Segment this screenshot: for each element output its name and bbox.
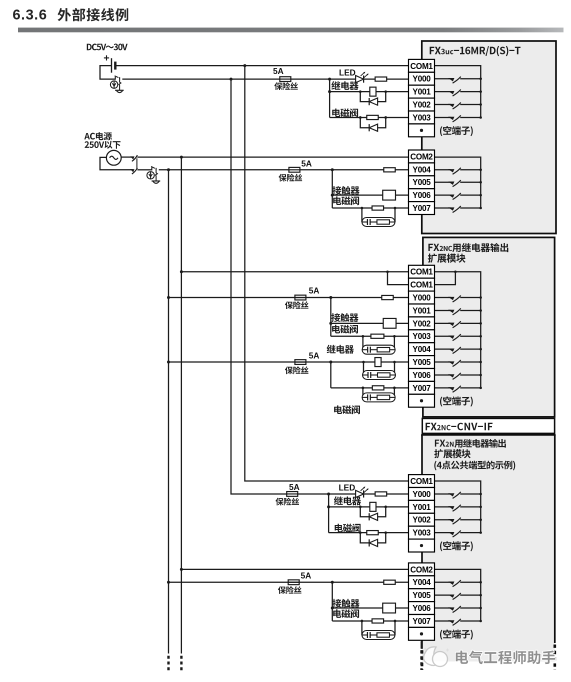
load bus (block3 group1)	[328, 494, 330, 533]
junction	[479, 506, 482, 509]
junction	[479, 387, 482, 390]
junction	[479, 361, 482, 364]
freewheel diode branch (block1 Y001)	[360, 92, 385, 102]
label AC电源	[84, 132, 112, 140]
label 保险丝 (block2 group2)	[285, 366, 309, 374]
relay contact (block1 COM2 group Y-row at 195.15)	[435, 193, 481, 200]
bus: AC bottom vertical (x=168.5)	[168, 170, 170, 654]
svg-text:COM2: COM2	[410, 152, 433, 161]
junction	[331, 194, 334, 197]
terminal COM1 (block3)	[409, 475, 435, 488]
svg-text:Y001: Y001	[413, 306, 432, 315]
surge snubber branch (block3 Y007)	[362, 621, 395, 635]
module label 扩展模块 (block 3)	[434, 449, 470, 458]
terminal Y007 (block1)	[409, 202, 435, 215]
RC surge absorber (block3 Y007)	[362, 631, 395, 640]
wire: AC top to COM1 (block2)	[181, 271, 408, 273]
label 电磁阀 (block2 group1)	[332, 325, 358, 334]
terminal Y005 (block3)	[409, 589, 435, 602]
terminal Y001 (block1)	[409, 85, 435, 98]
internal COM wire (block3 COM2 group)	[435, 569, 481, 621]
svg-text:Y005: Y005	[413, 591, 432, 600]
junction	[479, 78, 482, 81]
junction	[479, 207, 482, 210]
diode (block1 Y001)	[369, 98, 377, 105]
junction	[479, 103, 482, 106]
wire: contactor branch Y006 (block3)	[332, 607, 408, 609]
module label FX3uc-16MR/D(S)-T	[430, 46, 521, 56]
terminal Y000 (block2)	[409, 291, 435, 304]
svg-text:COM1: COM1	[410, 268, 433, 277]
RC surge absorber (block2 Y007)	[362, 393, 395, 402]
relay contact (block2 COM1 group Y-row at 362.05)	[435, 360, 481, 367]
internal COM wire (block1 COM2 group)	[435, 157, 481, 208]
svg-text:COM1: COM1	[410, 477, 433, 486]
expansion module box FX2N (block 3, grey fill, open bottom)	[422, 435, 555, 662]
wire: relay branch Y001 (block3)	[329, 506, 409, 508]
battery V1 long plate	[111, 58, 113, 72]
label 电磁阀 (block1 group1)	[332, 108, 358, 117]
wire: DC fused line to Y000 (block1)	[122, 78, 408, 80]
junction	[479, 116, 482, 119]
relay contact (block3 COM1 group Y-row at 506.85)	[435, 505, 481, 512]
junction	[479, 181, 482, 184]
junction	[479, 620, 482, 623]
junction	[329, 361, 332, 364]
relay contact (block2 COM1 group Y-row at 310.45)	[435, 308, 481, 315]
junction	[479, 607, 482, 610]
empty terminal • (block3)	[409, 627, 435, 640]
junction	[384, 531, 387, 534]
relay contact (block3 COM1 group Y-row at 532.65)	[435, 531, 481, 538]
terminal Y007 (block3)	[409, 615, 435, 628]
AC top bus dashed continuation	[180, 656, 182, 672]
surge snubber branch (block2 Y003)	[363, 336, 395, 349]
label 接触器 (block3)	[332, 599, 359, 608]
wire: AC top to breaker	[121, 156, 133, 158]
diode (block1 Y003)	[369, 124, 377, 131]
RC surge absorber (block1 Y007)	[362, 218, 395, 227]
svg-text:Y000: Y000	[413, 490, 432, 499]
resistor load (block2 Y000)	[382, 295, 394, 299]
COM1 jumper stub (block2)	[388, 272, 409, 285]
junction	[167, 168, 170, 171]
contactor coil (block2 Y002)	[383, 318, 396, 328]
junction	[328, 90, 331, 93]
relay contact (block1 COM1 group Y-row at 117.45)	[435, 115, 481, 122]
svg-text:5A: 5A	[309, 351, 320, 361]
relay contact (block3 COM1 group Y-row at 493.95)	[435, 492, 481, 499]
block 3 right border	[554, 435, 556, 643]
junction	[479, 322, 482, 325]
relay contact (block2 COM1 group Y-row at 297.55)	[435, 295, 481, 302]
AC source G1 circle	[106, 150, 121, 165]
freewheel diode branch (block1 Y003)	[360, 117, 385, 127]
svg-text:Y000: Y000	[413, 293, 432, 302]
junction	[479, 531, 482, 534]
svg-text:5A: 5A	[273, 66, 284, 76]
load bus (block1 group2)	[331, 170, 333, 208]
svg-text:Y002: Y002	[413, 319, 432, 328]
contactor coil (block1 Y006)	[383, 190, 396, 200]
junction	[393, 335, 396, 338]
junction	[362, 335, 365, 338]
fuse 5A (block1 group1)	[280, 77, 291, 82]
module label 扩展模块 (block 2)	[428, 254, 466, 263]
svg-text:Y001: Y001	[413, 88, 432, 97]
diode (block3 Y001)	[369, 513, 377, 520]
surge snubber branch (block2 Y007)	[363, 388, 395, 398]
svg-text:Y006: Y006	[413, 604, 432, 613]
svg-text:Y007: Y007	[413, 617, 432, 626]
internal COM wire (block2 COM1 group)	[435, 272, 481, 388]
svg-text:Y003: Y003	[413, 113, 432, 122]
relay contact (block3 COM2 group Y-row at 608.05)	[435, 606, 481, 613]
svg-text:5A: 5A	[301, 158, 312, 168]
expansion module box FX2NC (block 2)	[423, 237, 555, 417]
junction	[180, 568, 183, 571]
junction	[393, 387, 396, 390]
terminal COM1 (block2)	[409, 265, 435, 278]
wire: AC top to COM2 (block1)	[137, 156, 408, 158]
wire: relay branch Y001 (block1)	[330, 91, 409, 93]
junction	[359, 90, 362, 93]
terminal COM2 (block1)	[409, 150, 435, 163]
wire: AC top to COM2 (block3)	[181, 568, 408, 570]
block 3 left border dashed continuation	[421, 650, 424, 670]
terminal Y004 (block2)	[409, 343, 435, 356]
junction	[331, 168, 334, 171]
terminal COM1 (block2)	[409, 278, 435, 291]
label 保险丝 (block1 group2)	[279, 174, 303, 182]
internal COM wire (block3 COM1 group)	[435, 481, 481, 533]
svg-text:Y001: Y001	[413, 503, 432, 512]
block 3 top border	[421, 434, 555, 436]
relay contact (block1 COM2 group Y-row at 169.8)	[435, 168, 481, 175]
relay contact (block2 COM1 group Y-row at 323.35)	[435, 321, 481, 328]
terminal Y002 (block2)	[409, 317, 435, 330]
svg-text:Y003: Y003	[413, 332, 432, 341]
junction	[361, 620, 364, 623]
terminal Y003 (block1)	[409, 111, 435, 124]
relay contact (block1 COM2 group Y-row at 208.05)	[435, 206, 481, 213]
svg-text:COM1: COM1	[410, 62, 433, 71]
empty terminal • (block1)	[409, 124, 435, 137]
RC surge absorber (block2 Y005)	[363, 371, 396, 380]
junction	[359, 506, 362, 509]
terminal Y000 (block3)	[409, 488, 435, 501]
label 继电器 (block1)	[331, 81, 358, 90]
solenoid load (block2 Y007)	[372, 386, 384, 390]
wire: battery left drop	[100, 66, 115, 80]
junction	[479, 169, 482, 172]
breaker pole (AC bottom wire)	[130, 168, 137, 174]
load bus (block3 group2)	[331, 582, 333, 621]
block 3 right border dashed continuation	[553, 645, 556, 671]
label 电磁阀 (block2 bottom)	[334, 405, 360, 414]
junction	[180, 270, 183, 273]
junction	[230, 78, 233, 81]
resistor load (block1 Y004)	[384, 168, 396, 172]
terminal Y000 (block1)	[409, 72, 435, 85]
solenoid load (block1 Y003)	[367, 115, 379, 119]
watermark text 电气工程师助手	[456, 651, 556, 665]
empty terminal • (block2)	[409, 394, 435, 407]
relay contact (block3 COM2 group Y-row at 582.25)	[435, 580, 481, 587]
junction	[243, 64, 246, 67]
relay contact (block1 COM2 group Y-row at 182.25)	[435, 180, 481, 187]
junction	[479, 335, 482, 338]
relay contact (block1 COM1 group Y-row at 91.65)	[435, 90, 481, 97]
junction	[167, 361, 170, 364]
junction	[331, 607, 334, 610]
freewheel diode branch (block3 Y001)	[360, 507, 385, 517]
terminal Y002 (block3)	[409, 513, 435, 526]
label (空端子) block1	[440, 126, 473, 136]
fuse 5A (block2 group2)	[295, 360, 306, 365]
svg-text:Y004: Y004	[413, 345, 432, 354]
terminal Y004 (block3)	[409, 576, 435, 589]
svg-text:COM1: COM1	[410, 281, 433, 290]
relay contact (block2 COM1 group Y-row at 387.85)	[435, 386, 481, 393]
junction	[479, 194, 482, 197]
junction	[328, 78, 331, 81]
junction	[479, 296, 482, 299]
svg-text:LED: LED	[339, 68, 356, 78]
junction	[454, 270, 457, 273]
resistor load (block1 Y000)	[375, 77, 387, 81]
svg-text:Y006: Y006	[413, 371, 432, 380]
svg-text:5A: 5A	[309, 286, 320, 296]
junction	[479, 493, 482, 496]
relay contact (block3 COM2 group Y-row at 620.95)	[435, 619, 481, 626]
resistor load (block3 Y004)	[384, 580, 396, 584]
wire: AC bottom to surge	[137, 169, 151, 171]
svg-text:COM2: COM2	[410, 565, 433, 574]
solenoid load (block1 Y007)	[372, 206, 384, 210]
junction	[384, 116, 387, 119]
wire: solenoid branch Y003 (block1)	[330, 116, 409, 118]
junction	[384, 506, 387, 509]
junction	[329, 296, 332, 299]
diode (block3 Y003)	[369, 539, 377, 546]
title underline bar	[18, 28, 564, 33]
svg-text:Y004: Y004	[413, 578, 432, 587]
AC source sine symbol	[110, 156, 118, 159]
relay contact (block1 COM1 group Y-row at 104.55)	[435, 102, 481, 109]
solenoid load (block3 Y003)	[367, 531, 379, 535]
junction	[327, 492, 330, 495]
freewheel diode branch (block3 Y003)	[360, 533, 385, 543]
label 保险丝 (block3 group2)	[278, 586, 302, 594]
surge snubber branch (block2 Y005)	[364, 362, 395, 375]
section title 外部接线例	[58, 8, 129, 21]
module label FX2NC用继电器输出	[428, 243, 508, 252]
relay coil (block1 Y001)	[370, 87, 376, 96]
junction	[384, 90, 387, 93]
interface label FX2NC-CNV-IF	[426, 423, 493, 431]
terminal Y003 (block2)	[409, 330, 435, 343]
LED D1 (block1 Y000)	[356, 72, 369, 83]
junction	[479, 594, 482, 597]
terminal Y007 (block2)	[409, 381, 435, 394]
junction	[394, 620, 397, 623]
bus: AC top vertical (x=181.4)	[180, 157, 182, 653]
label 保险丝 (block1 group1)	[274, 82, 298, 90]
label 电磁阀 (block1 group2)	[333, 196, 359, 205]
junction	[180, 156, 183, 159]
wire: solenoid branch Y007 (block2)	[331, 387, 409, 389]
internal COM wire (block1 COM1 group)	[435, 66, 481, 118]
junction	[479, 348, 482, 351]
relay contact (block3 COM2 group Y-row at 595.15)	[435, 593, 481, 600]
terminal Y002 (block1)	[409, 98, 435, 111]
LED D2 (block3 Y000)	[356, 487, 369, 498]
svg-text:Y007: Y007	[413, 384, 432, 393]
svg-text:Y003: Y003	[413, 529, 432, 538]
svg-text:Y006: Y006	[413, 191, 432, 200]
junction	[479, 90, 482, 93]
surge absorber + earth ground (DC side)	[110, 76, 123, 93]
fuse 5A (block1 group2)	[289, 167, 300, 172]
label 保险丝 (block3 group1)	[276, 498, 300, 506]
label (空端子) block2	[440, 396, 473, 406]
solenoid load (block2 Y003)	[371, 334, 384, 338]
wire: battery + to COM1 (block1)	[117, 65, 409, 67]
bus: DC fused vertical (x=231)	[231, 79, 409, 494]
module label (4点公共端型的示例)	[434, 461, 515, 471]
terminal COM1 (block1)	[409, 59, 435, 72]
junction	[479, 519, 482, 522]
junction	[393, 361, 396, 364]
relay contact (block2 COM1 group Y-row at 349.15)	[435, 347, 481, 354]
svg-text:Y004: Y004	[413, 165, 432, 174]
terminal strip dashed continuation (block3)	[421, 641, 423, 649]
load bus (block2 group2)	[330, 362, 332, 388]
load bus (block1 group1)	[329, 79, 331, 117]
relay contact (block1 COM1 group Y-row at 78.75)	[435, 77, 481, 84]
terminal Y004 (block1)	[409, 163, 435, 176]
fuse 5A (block3 group1)	[287, 492, 298, 497]
terminal COM2 (block3)	[409, 563, 435, 576]
label DC5V~30V	[87, 44, 128, 51]
fuse 5A (block2 group1)	[295, 295, 306, 300]
junction	[362, 361, 365, 364]
svg-text:Y000: Y000	[413, 75, 432, 84]
breaker pole (AC top wire)	[130, 155, 137, 161]
junction	[479, 374, 482, 377]
label 继电器 (block2)	[327, 345, 354, 354]
junction	[359, 116, 362, 119]
load bus (block2 group1)	[330, 298, 332, 337]
junction	[479, 581, 482, 584]
wire: contactor branch Y002 (block2)	[331, 322, 409, 324]
wire: AC fused line 1 to Y000 (block2)	[169, 297, 409, 299]
empty terminal • (block3)	[409, 539, 435, 552]
solenoid load (block3 Y007)	[372, 619, 384, 623]
module label FX2N用继电器输出	[435, 439, 506, 448]
label (空端子) block3 group1	[440, 541, 473, 551]
terminal Y005 (block2)	[409, 356, 435, 369]
junction	[167, 581, 170, 584]
wire: solenoid branch Y003 (block2)	[331, 335, 409, 337]
wire: contactor branch Y006 (block1)	[332, 194, 408, 196]
junction	[386, 270, 389, 273]
watermark sketch icon	[424, 647, 449, 667]
terminal Y006 (block2)	[409, 369, 435, 382]
svg-text:LED: LED	[339, 482, 356, 492]
svg-text:Y002: Y002	[413, 100, 432, 109]
surge snubber branch (block1 Y007)	[362, 208, 395, 222]
PLC module box FX3uc-16MR/D(S)-T (block 1)	[422, 41, 556, 234]
svg-text:6.3.6: 6.3.6	[13, 8, 48, 24]
AC bottom bus dashed continuation	[167, 656, 169, 672]
svg-text:Y005: Y005	[413, 178, 432, 187]
terminal Y001 (block3)	[409, 500, 435, 513]
terminal Y003 (block3)	[409, 526, 435, 539]
wire: AC left drop	[100, 157, 133, 169]
label 250V以下	[85, 141, 121, 149]
relay contact (block3 COM1 group Y-row at 519.75)	[435, 518, 481, 525]
terminal Y006 (block3)	[409, 602, 435, 615]
junction	[329, 322, 332, 325]
battery plus sign	[104, 55, 109, 60]
breaker linkage	[136, 158, 138, 168]
junction	[331, 581, 334, 584]
label 电磁阀 (block3 group1)	[335, 524, 361, 533]
terminal Y006 (block1)	[409, 189, 435, 202]
relay contact (block2 COM1 group Y-row at 336.25)	[435, 334, 481, 341]
block 3 left border	[421, 435, 423, 649]
wire: AC fused line to Y004 (block3)	[169, 581, 409, 583]
svg-text:5A: 5A	[289, 482, 300, 492]
interface box FX2NC-CNV-IF	[422, 418, 554, 433]
relay contact (block2 COM1 group Y-row at 374.95)	[435, 373, 481, 380]
svg-text:Y002: Y002	[413, 516, 432, 525]
surge absorber + earth ground (AC side)	[147, 167, 160, 184]
relay coil (block3 Y001)	[370, 502, 376, 511]
svg-text:Y005: Y005	[413, 358, 432, 367]
bus: DC+ vertical (x=244.8)	[245, 66, 409, 481]
junction	[394, 207, 397, 210]
junction	[359, 531, 362, 534]
label 接触器 (block1)	[332, 186, 359, 195]
label (空端子) block3 group2	[440, 630, 473, 640]
wire: AC fused line to Y004 (block1)	[159, 169, 409, 171]
contactor coil (block3 Y006)	[383, 603, 396, 613]
wire: AC fused line 2 to Y005 (block2)	[169, 361, 409, 363]
relay coil (block2 Y005)	[375, 358, 381, 367]
junction	[479, 309, 482, 312]
terminal Y005 (block1)	[409, 176, 435, 189]
label 保险丝 (block2 group1)	[285, 301, 309, 309]
label 继电器 (block3)	[334, 496, 361, 505]
svg-text:5A: 5A	[301, 571, 312, 581]
internal COM jumper (block2 COM1 group)	[435, 272, 456, 285]
junction	[361, 207, 364, 210]
label 电磁阀 (block3 group2)	[333, 609, 359, 618]
fuse 5A (block3 group2)	[288, 580, 299, 585]
wire: solenoid branch Y003 (block3)	[329, 532, 409, 534]
svg-text:Y007: Y007	[413, 204, 432, 213]
junction	[327, 505, 330, 508]
wire: solenoid branch Y007 (block3)	[332, 620, 408, 622]
terminal Y001 (block2)	[409, 304, 435, 317]
label 接触器 (block2)	[331, 313, 358, 322]
resistor load (block3 Y000)	[375, 492, 387, 496]
battery V1 short plate	[114, 62, 116, 70]
junction	[167, 296, 170, 299]
